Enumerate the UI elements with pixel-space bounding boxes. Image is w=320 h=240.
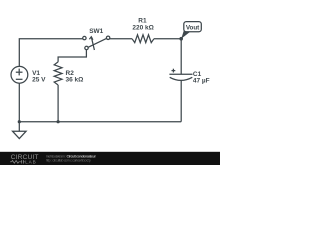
wire switch bottom terminal to R2 top [58,50,86,62]
junction dot R2/rail [57,120,60,123]
svg-text:SW1: SW1 [89,28,103,35]
wire node Vout down to C1 [180,39,182,75]
svg-text:36 kΩ: 36 kΩ [66,76,84,83]
junction dot node Vout [179,37,183,41]
footer bar [0,152,220,165]
ground [13,122,27,139]
wire R2 bottom to rail [57,85,59,122]
wire C1 bottom to rail [180,81,182,122]
svg-text:25 V: 25 V [32,77,46,84]
wire switch right terminal to R1 [110,38,132,40]
wire R1 to node Vout [154,38,181,40]
svg-text:220 kΩ: 220 kΩ [132,24,153,31]
capacitor C1 [169,69,192,81]
voltage source V1 [11,66,28,83]
switch SW1 [83,36,110,50]
resistor R2 [54,62,62,85]
wire bottom rail [19,121,181,123]
svg-text:Vout: Vout [186,25,200,32]
junction dot ground/rail [18,120,21,123]
svg-text:http : circuitlab corn c carka: http : circuitlab corn c carkaxhbcx2p [46,159,91,163]
svg-text:LAB: LAB [25,159,36,164]
svg-text:47 µF: 47 µF [193,77,210,84]
footer logo CIRCUIT LAB [10,154,39,164]
node flag Vout [181,22,201,39]
resistor R1 [132,35,154,43]
wire V1 bottom to rail [18,83,20,122]
wire V1 top to switch left terminal [19,39,82,67]
